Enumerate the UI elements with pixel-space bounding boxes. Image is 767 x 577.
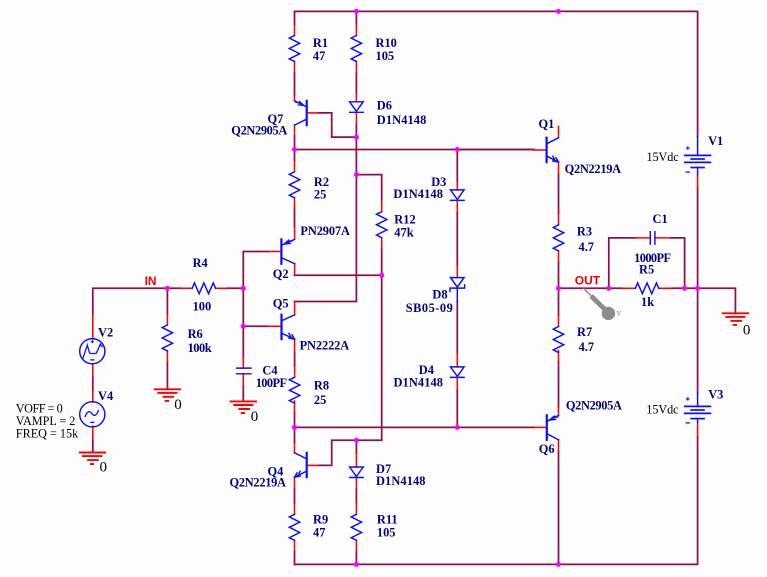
svg-text:100: 100 — [193, 299, 212, 313]
svg-text:Q2N2219A: Q2N2219A — [565, 162, 622, 176]
battery V3 — [685, 394, 711, 423]
svg-text:R11: R11 — [377, 512, 398, 526]
wire V2 top from IN corner — [92, 288, 94, 314]
SECTION: probe — [584, 289, 622, 320]
pin C1 left — [635, 237, 650, 239]
svg-text:Q1: Q1 — [539, 117, 555, 131]
pin R8 top — [294, 366, 296, 377]
pin Q1 emitter — [558, 162, 560, 174]
pin Q5 collector — [294, 302, 296, 315]
svg-text:R8: R8 — [314, 378, 329, 392]
wire R2 top stub — [294, 150, 296, 161]
node dot IN — [165, 286, 170, 291]
svg-text:PN2222A: PN2222A — [300, 339, 350, 353]
diode D8 bottom blue stub — [456, 287, 458, 301]
node dot C1 right / R5 — [682, 286, 687, 291]
node dot Q2 collector / R12 — [379, 273, 384, 278]
svg-text:100PF: 100PF — [256, 376, 287, 390]
svg-text:105: 105 — [377, 525, 396, 539]
wire C1 right branch — [671, 238, 685, 288]
wire D6 cathode to node — [355, 124, 357, 137]
node dot bottom rail at Q6 collector — [556, 562, 561, 567]
pin R4 left — [181, 287, 192, 289]
pin D7 cathode — [355, 478, 357, 489]
resistor R2 — [289, 172, 299, 198]
ground under V4 — [80, 453, 105, 465]
pin R12 top — [381, 201, 383, 212]
svg-text:D1N4148: D1N4148 — [393, 187, 443, 201]
wire R2 bottom to Q2 emitter — [294, 209, 296, 226]
svg-text:D6: D6 — [377, 99, 392, 113]
transistor Q6 (PNP) — [547, 415, 559, 440]
pin Q5 emitter — [294, 339, 296, 352]
wire branch node to R12 top — [356, 175, 381, 201]
pin Q6 base — [534, 426, 547, 428]
transistor Q7 (PNP) — [295, 101, 307, 125]
wire D7 top stub — [355, 440, 357, 453]
pin D7 anode — [355, 453, 357, 467]
pin Q4 base — [307, 464, 319, 466]
ground right of R5 (node 0) — [723, 313, 748, 325]
battery V1 — [685, 137, 711, 175]
svg-text:D1N4148: D1N4148 — [376, 474, 426, 488]
pin D4 cathode — [456, 378, 458, 390]
resistor R3 — [553, 225, 563, 251]
svg-text:R3: R3 — [577, 224, 592, 238]
svg-text:V2: V2 — [98, 326, 113, 340]
pin D3 cathode — [456, 201, 458, 212]
pin Q2 emitter — [294, 227, 296, 240]
svg-text:OUT: OUT — [575, 274, 601, 288]
wire node down to Q4 collector — [294, 427, 296, 442]
resistor R9 — [289, 514, 299, 540]
svg-text:R10: R10 — [376, 36, 397, 50]
capacitor C1 — [650, 232, 655, 245]
source V2 (VPULSE) — [80, 339, 105, 364]
wire R10 bottom to D6 anode — [355, 73, 357, 94]
voltage probe marker at OUT — [584, 289, 592, 297]
svg-text:47: 47 — [313, 525, 325, 539]
resistor R6 — [162, 325, 172, 351]
svg-text:PN2907A: PN2907A — [300, 224, 350, 238]
svg-text:Q2: Q2 — [273, 267, 289, 281]
svg-text:Q2N2219A: Q2N2219A — [230, 475, 287, 489]
svg-text:SB05-09: SB05-09 — [406, 301, 453, 315]
wire R11 bottom to bottom rail — [355, 551, 357, 564]
wire bottom rail — [295, 437, 698, 565]
pin D8 anode — [456, 265, 458, 277]
wire R9 bottom to bottom rail — [294, 551, 296, 564]
svg-text:47k: 47k — [394, 226, 413, 240]
wire D3 to D8 link — [456, 212, 458, 265]
pin R3 bottom — [558, 251, 560, 262]
svg-text:v: v — [617, 309, 622, 319]
SECTION: pins (red stubs) — [93, 24, 698, 551]
node dot D6 cathode / Q7 base — [354, 135, 359, 140]
wire OUT node down to R7 — [558, 288, 560, 315]
pin Q7 collector — [294, 125, 296, 136]
node dot bottom rail at R11 — [354, 562, 359, 567]
pin R4 right — [216, 287, 228, 289]
wire D7 cathode to R11 top — [355, 489, 357, 503]
diode D4 — [451, 367, 465, 378]
wire R1 bottom to Q7 emitter — [294, 73, 296, 95]
wire V1 bottom to zero node — [697, 188, 699, 288]
wire V4 bottom to ground — [92, 439, 94, 452]
wire zero node to right ground — [698, 288, 736, 313]
pin V4 bottom — [92, 426, 94, 439]
capacitor C4 — [237, 368, 251, 374]
pin R5 left — [622, 287, 635, 289]
node dot branch to R12 — [354, 172, 359, 177]
transistor Q2 (PNP) — [281, 239, 294, 263]
wire R4 right to Q2 base column — [227, 287, 243, 289]
pin R11 bottom — [355, 540, 357, 551]
pin R6 top — [166, 314, 168, 325]
wire R12 bottom down to Q4 base row — [356, 249, 381, 440]
ground under R6 — [155, 389, 180, 401]
pin R5 right — [659, 287, 672, 289]
svg-text:105: 105 — [376, 49, 395, 63]
wire R5 right to C1 node — [672, 287, 697, 289]
svg-text:V1: V1 — [708, 134, 723, 148]
wire R8 bottom to wire-A node — [294, 412, 296, 427]
svg-text:25: 25 — [314, 187, 326, 201]
svg-text:R7: R7 — [577, 325, 592, 339]
svg-text:D1N4148: D1N4148 — [377, 113, 427, 127]
pin R7 bottom — [558, 350, 560, 361]
wire IN column down to Q5 base node — [242, 288, 244, 326]
pin C1 right — [655, 237, 671, 239]
svg-text:R9: R9 — [313, 512, 328, 526]
pin Q1 collector — [558, 126, 560, 137]
wire D4 bottom to wire-A node — [456, 390, 458, 428]
transistor Q5 (NPN) — [282, 315, 295, 340]
wire node A vertical down to Q5 collector wire — [295, 137, 357, 301]
svg-text:FREQ = 15k: FREQ = 15k — [16, 426, 79, 440]
wire R10 top stub — [355, 11, 357, 24]
node dot C1 left tap — [606, 286, 611, 291]
wire D8 to D4 link — [456, 301, 458, 354]
pin R10 top — [355, 24, 357, 35]
pin R2 bottom — [294, 198, 296, 209]
pin R9 top — [294, 503, 296, 514]
svg-text:47: 47 — [313, 49, 325, 63]
resistor R1 — [289, 36, 299, 62]
svg-text:R4: R4 — [193, 256, 208, 270]
wire Q7 collector to node row — [294, 136, 296, 149]
diode D8 (schottky) — [450, 278, 465, 292]
wire Q4 base link — [319, 440, 357, 465]
wire Q5 emitter to R8 top — [294, 352, 296, 366]
pin R1 bottom — [294, 62, 296, 73]
wire Q6 collector to bottom rail — [558, 452, 560, 565]
svg-text:IN: IN — [145, 274, 157, 288]
svg-text:4.7: 4.7 — [579, 340, 595, 354]
pin Q7 emitter — [294, 95, 296, 101]
SECTION: grounds — [80, 313, 748, 464]
svg-text:V4: V4 — [98, 389, 113, 403]
pin D3 anode — [456, 182, 458, 190]
resistor R10 — [351, 36, 361, 62]
node dot top rail at R10 — [354, 9, 359, 14]
svg-text:R12: R12 — [394, 213, 415, 227]
pin V2 top — [92, 315, 94, 339]
svg-text:V3: V3 — [708, 388, 723, 402]
pin C4 bottom — [242, 374, 244, 386]
svg-text:R1: R1 — [313, 36, 328, 50]
pin R3 top — [558, 214, 560, 225]
node dot D7 top / Q4 base — [354, 438, 359, 443]
resistor R5 — [635, 283, 659, 294]
pin R1 top — [294, 24, 296, 35]
svg-text:15Vdc: 15Vdc — [646, 402, 679, 416]
resistor R4 — [192, 283, 216, 294]
svg-text:D8: D8 — [432, 288, 447, 302]
wire zero node to V3 top — [697, 288, 699, 393]
wire Q5 base stub — [243, 325, 267, 327]
pin Q4 collector — [294, 443, 296, 453]
pin D4 anode — [456, 354, 458, 367]
pin Q7 base — [307, 112, 319, 114]
wire OUT row to C1/R5 branch — [559, 287, 622, 289]
node dot R8 bottom / wire A — [292, 425, 297, 430]
pin Q5 base — [267, 325, 281, 327]
pin R9 bottom — [294, 540, 296, 551]
wire C1 left branch — [609, 238, 636, 288]
pin Q6 emitter — [558, 407, 560, 416]
svg-text:D1N4148: D1N4148 — [394, 376, 444, 390]
wire C4 bottom to ground — [242, 386, 244, 401]
pin Q1 base — [534, 149, 547, 151]
svg-text:Q2N2905A: Q2N2905A — [566, 399, 622, 413]
svg-text:15Vdc: 15Vdc — [647, 150, 680, 164]
pin V1 bottom — [697, 175, 699, 188]
wire D3 column top stub — [456, 150, 458, 183]
svg-text:Q2N2905A: Q2N2905A — [231, 124, 287, 138]
pin Q6 collector — [558, 440, 560, 452]
pin R11 top — [355, 503, 357, 514]
pin R10 bottom — [355, 62, 357, 73]
wire R3 bottom to OUT node — [558, 262, 560, 288]
wire R7 bottom to Q6 emitter — [558, 362, 560, 407]
wire R6 bottom to ground — [166, 362, 168, 389]
node dot Q5 base / C4 — [241, 324, 246, 329]
svg-text:0: 0 — [100, 460, 108, 476]
pin D6 cathode — [355, 113, 357, 124]
wire Q7 base to node at D6 cathode — [319, 113, 357, 137]
wire Q2 collector row to R12 column — [295, 274, 382, 276]
wire horizontal row Q7-collector to Q1 base — [295, 149, 535, 151]
wire V2-V4 link — [92, 377, 94, 389]
diode D6 — [350, 102, 364, 113]
pin R8 bottom — [294, 401, 296, 412]
svg-text:1k: 1k — [641, 295, 654, 309]
pin V4 top — [92, 389, 94, 402]
node dot D3 top — [455, 147, 460, 152]
svg-text:D4: D4 — [419, 363, 434, 377]
svg-text:R5: R5 — [639, 263, 654, 277]
diode D3 — [451, 190, 465, 201]
resistor R11 — [351, 514, 361, 540]
svg-text:Q6: Q6 — [539, 442, 555, 456]
node dot supply mid rail — [695, 286, 700, 291]
wire top supply rail with corners to R1 and V1 — [295, 11, 698, 136]
wire R6 top stub — [166, 288, 168, 314]
wire Q4 emitter to R9 top — [294, 489, 296, 503]
svg-text:R6: R6 — [188, 327, 203, 341]
pin D6 anode — [355, 94, 357, 102]
diode D7 — [350, 467, 364, 478]
node dot D4 bottom / wire A — [455, 425, 460, 430]
node dot Q7 collector / R2 — [292, 147, 297, 152]
wire Q1 base from D3 node — [457, 149, 534, 151]
pin C4 top — [242, 358, 244, 369]
svg-text:0: 0 — [174, 397, 182, 413]
SECTION: components — [80, 36, 711, 541]
source V4 (VSIN) — [80, 402, 105, 427]
pin Q2 base — [269, 251, 281, 253]
svg-text:4.7: 4.7 — [579, 240, 595, 254]
pin Q4 emitter — [294, 477, 296, 488]
pin V3 bottom — [697, 422, 699, 437]
wire IN node from source column — [93, 287, 181, 289]
wire Q1 emitter to R3 — [558, 174, 560, 214]
resistor R8 — [289, 377, 299, 403]
svg-text:100k: 100k — [188, 341, 212, 355]
pin Q2 collector — [294, 264, 296, 276]
resistor R12 — [377, 212, 387, 238]
pin R7 top — [558, 315, 560, 326]
pin R12 bottom — [381, 238, 383, 249]
pin R6 bottom — [166, 351, 168, 362]
node dot OUT — [556, 286, 561, 291]
svg-text:0: 0 — [251, 409, 259, 425]
wire A: R8 node to Q6 base — [295, 426, 535, 428]
SECTION: dots — [165, 9, 700, 567]
pin R2 top — [294, 160, 296, 171]
svg-text:C1: C1 — [653, 212, 668, 226]
node dot top rail at Q1 collector — [556, 9, 561, 14]
transistor Q1 (NPN) — [547, 138, 559, 162]
ground under C4 — [231, 401, 256, 413]
svg-text:0: 0 — [743, 323, 751, 339]
wire Q2 base to IN node — [243, 252, 269, 289]
svg-text:25: 25 — [314, 393, 326, 407]
node dot R4 / Q2 base column — [241, 286, 246, 291]
svg-text:Q5: Q5 — [273, 297, 289, 311]
resistor R7 — [553, 327, 563, 353]
wire Q5 base node to C4 top — [242, 326, 244, 357]
transistor Q4 (NPN) — [295, 453, 307, 477]
pin V2 bottom — [92, 364, 94, 377]
